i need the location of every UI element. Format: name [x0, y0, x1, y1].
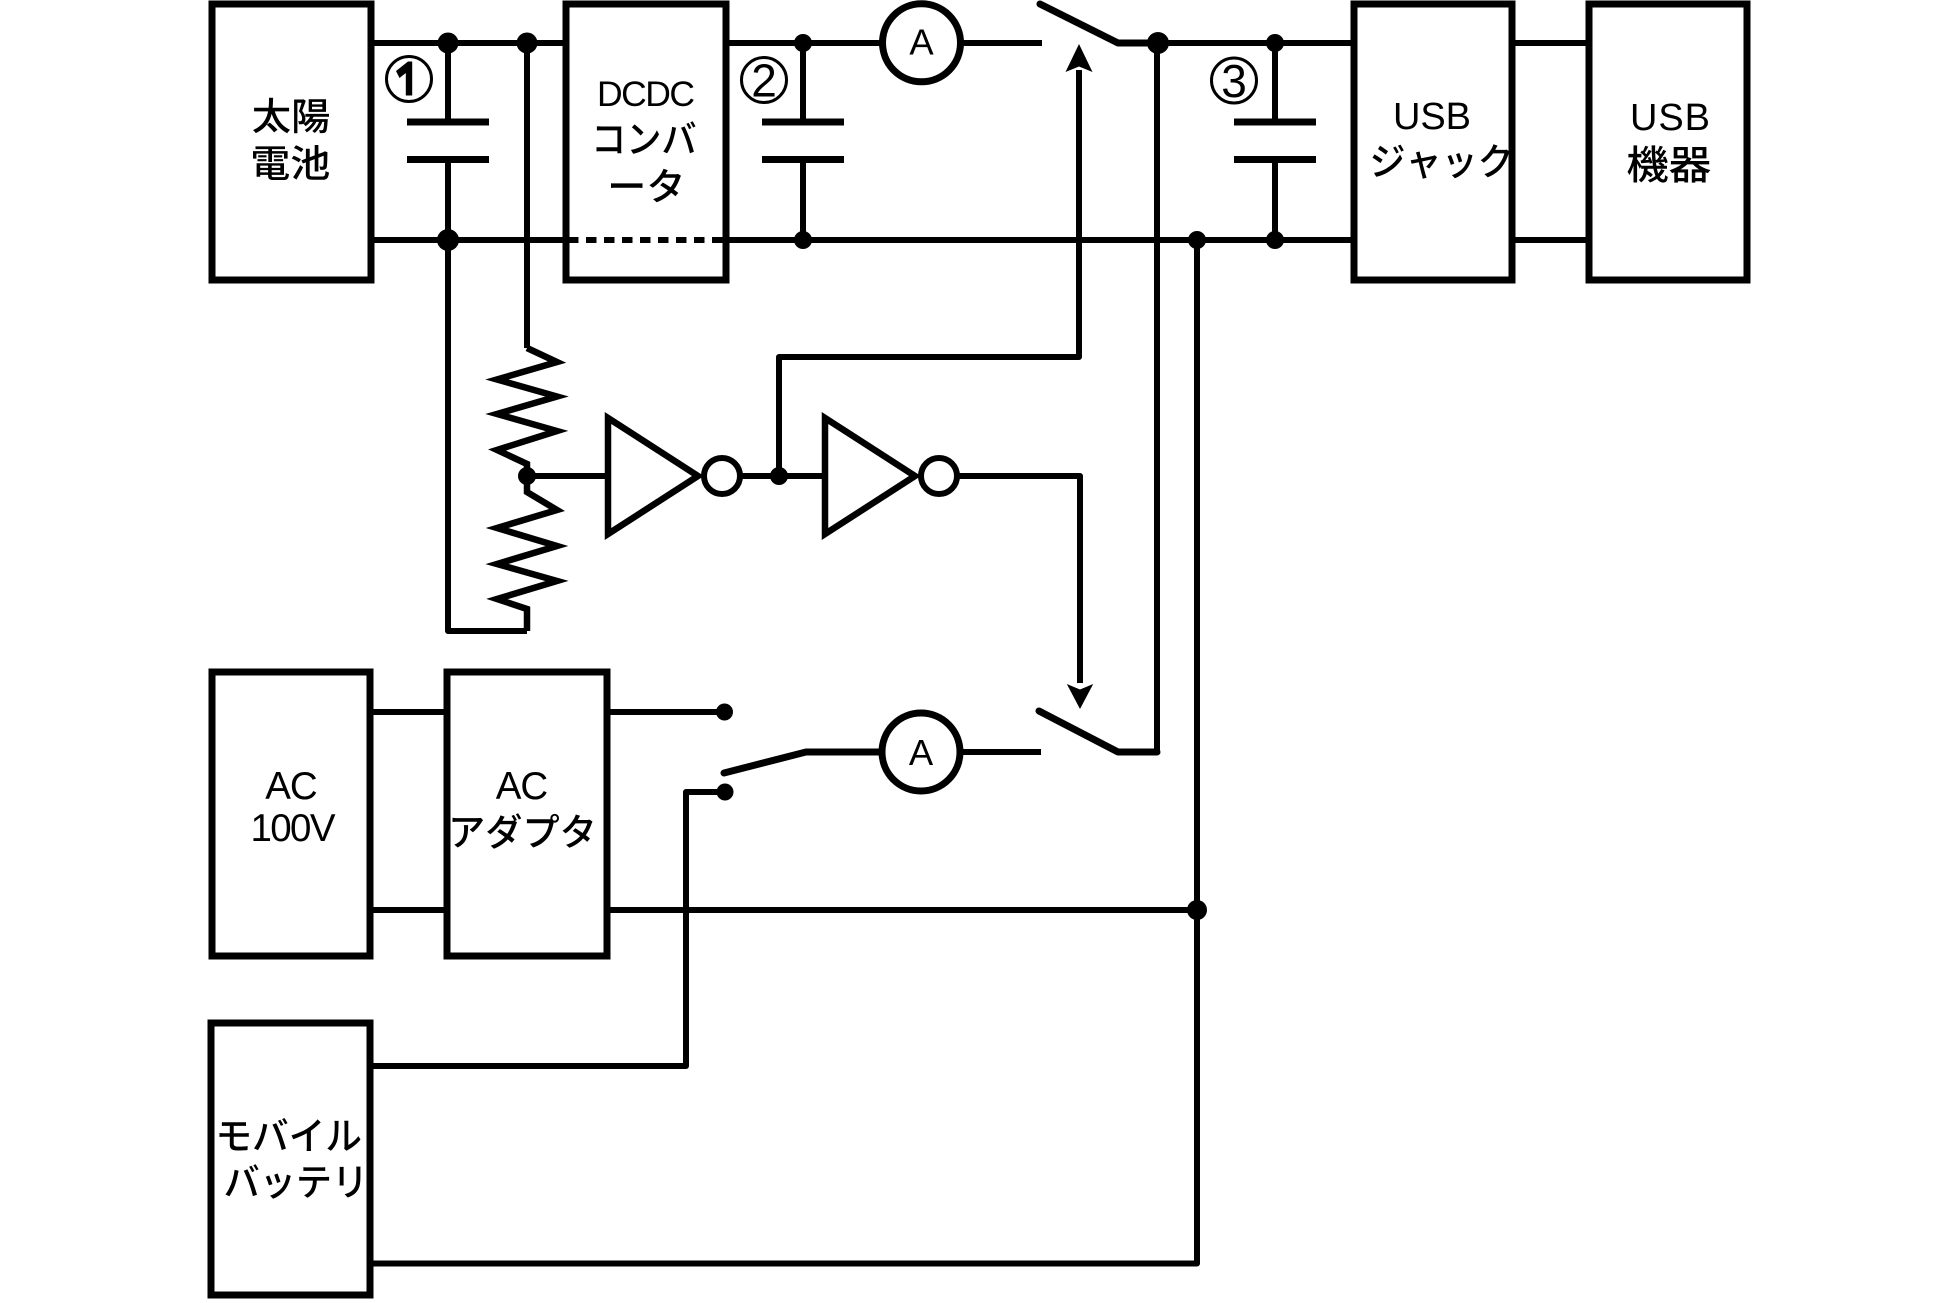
resistor R2: [497, 476, 557, 631]
node dot bottom bus at C1: [437, 229, 459, 251]
wire divider top lead: [524, 43, 530, 348]
wire U2 output to S2 control with down arrow: [957, 476, 1093, 709]
node dot junction C3 top: [1266, 34, 1284, 52]
resistor R1: [497, 348, 557, 476]
ammeter A1: [883, 4, 961, 82]
node dot divider tap: [518, 467, 536, 485]
svg-text:AC: AC: [265, 765, 318, 808]
node contact dot AC adapter output: [716, 704, 733, 721]
block USB 機器 (USB device): [1589, 4, 1747, 280]
wire AC100V to adapter top: [370, 709, 447, 715]
svg-text:AC: AC: [496, 765, 549, 808]
wire U1 output to U2 input: [740, 473, 825, 479]
switch S2 blade (open): [1039, 711, 1157, 752]
wire bottom bus: DCDC to USB jack: [726, 237, 1354, 243]
svg-text:DCDC: DCDC: [597, 74, 695, 114]
wire DCDC out to ammeter A1: [726, 40, 883, 46]
node ① marker: [387, 57, 432, 102]
node dot bottom bus at ground drop: [1188, 231, 1206, 249]
wire AC adapter + output to contact: [607, 709, 725, 715]
block 太陽電池 (solar cell): [212, 4, 371, 280]
wire USB jack to USB device bottom: [1512, 237, 1589, 243]
wire USB jack to USB device top: [1512, 40, 1589, 46]
block USB ジャック (USB jack): [1354, 4, 1512, 280]
wire S1 node down to S2: [1154, 43, 1160, 752]
node dot ground drop at adapter return: [1187, 900, 1207, 920]
block DCDC コンバータ (DCDC converter): [566, 4, 726, 280]
svg-text:3: 3: [1221, 55, 1247, 107]
node dot S1 right: [1147, 32, 1169, 54]
node dot junction divider top: [517, 33, 538, 54]
node contact dot mobile battery output: [717, 784, 734, 801]
switch S3 blade (source select, open): [724, 752, 882, 773]
switch S1 blade (open): [1040, 4, 1158, 43]
node ② marker: [742, 55, 787, 107]
wire tap to inverter U1 input: [527, 473, 608, 479]
wire bottom bus dashed through DCDC: [568, 237, 726, 243]
svg-text:A: A: [909, 732, 934, 773]
svg-text:A: A: [909, 22, 934, 63]
block モバイルバッテリ (mobile battery): [211, 1023, 370, 1295]
node dot U1 output: [770, 467, 788, 485]
block AC 100V (AC mains): [212, 672, 370, 956]
svg-text:USB: USB: [1630, 97, 1710, 139]
wire S1 node to USB jack: [1158, 40, 1354, 46]
wire AC100V to adapter bottom: [370, 907, 447, 913]
node ③ marker: [1212, 55, 1257, 107]
ammeter A2: [882, 713, 960, 791]
capacitor C1: [407, 43, 489, 240]
node dot bottom bus at C2: [794, 231, 812, 249]
wire feedback to S1 control with up arrow: [779, 44, 1093, 476]
svg-text:2: 2: [751, 55, 777, 107]
node dot junction C1 top: [438, 33, 459, 54]
wire mobile battery + to lower contact: [370, 792, 725, 1066]
wire ground drop: bottom bus to mobile battery return: [370, 240, 1197, 1264]
capacitor C3: [1234, 43, 1316, 240]
capacitor C2: [762, 43, 844, 240]
wire R2 bottom return to ground bus: [448, 240, 527, 631]
block AC アダプタ (AC adapter): [447, 672, 607, 956]
svg-text:USB: USB: [1393, 96, 1471, 138]
inverter U2: [825, 418, 957, 534]
svg-text:100V: 100V: [251, 807, 336, 850]
node dot bottom bus at C3: [1266, 231, 1284, 249]
wire AC adapter - output to ground drop: [607, 907, 1197, 913]
inverter U1: [608, 418, 740, 534]
wire ammeter A2 to S2 contact: [960, 749, 1041, 755]
wire top bus: solar cell to DCDC: [371, 40, 566, 46]
wire bottom bus: solar cell to DCDC: [371, 237, 566, 243]
wire A1 to switch S1 contact: [961, 40, 1043, 46]
node dot junction C2 top: [794, 34, 812, 52]
